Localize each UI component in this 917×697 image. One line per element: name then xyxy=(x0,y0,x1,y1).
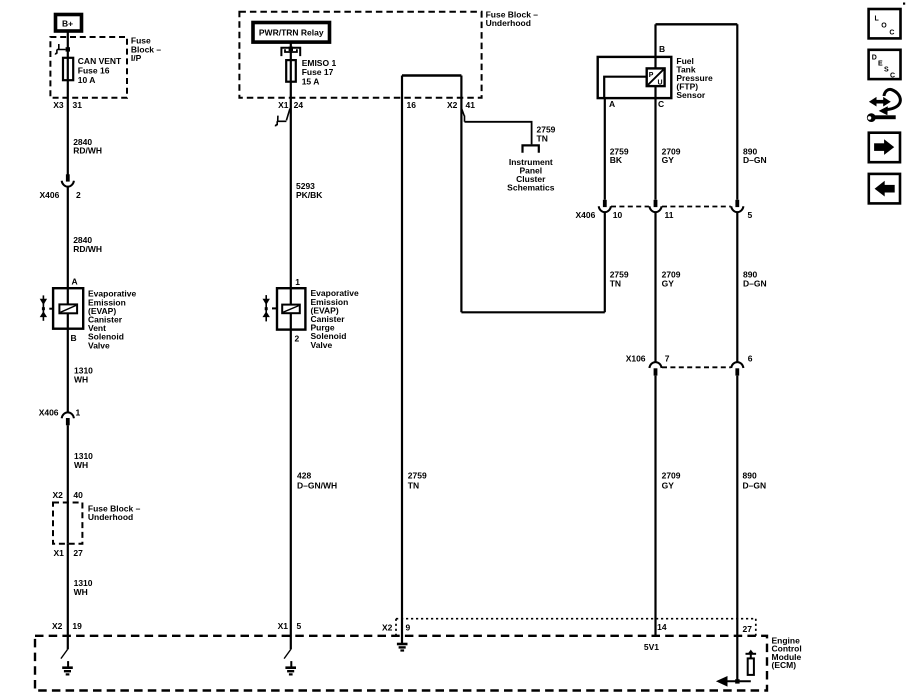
wire label 890 D-GN (lower) xyxy=(743,470,767,490)
svg-text:WH: WH xyxy=(74,374,88,384)
wire X2-41 vertical down xyxy=(460,76,462,313)
label X2 19 (ECM pin) xyxy=(52,621,82,631)
svg-text:27: 27 xyxy=(743,624,753,634)
label X406 10 11 5 xyxy=(576,210,753,220)
fuse F16 CAN VENT xyxy=(63,58,73,80)
svg-text:15 A: 15 A xyxy=(302,77,320,87)
svg-text:A: A xyxy=(72,276,78,286)
label EVAP canister vent solenoid valve xyxy=(88,289,136,351)
wire 2759 TN X406-10 down to corner xyxy=(604,213,606,312)
pigtail curl at X1-24 xyxy=(275,109,290,127)
fuse block underhood small dashed box xyxy=(53,503,82,544)
fuse terminal clip symbol xyxy=(281,47,300,57)
svg-text:16: 16 xyxy=(407,100,417,110)
wire 890 D-GN down to X406-5 xyxy=(736,24,738,200)
B+ terminal box xyxy=(56,15,82,32)
svg-text:9: 9 xyxy=(406,623,411,633)
svg-text:2759: 2759 xyxy=(408,470,427,480)
wire label 1310 WH (middle) xyxy=(74,451,93,470)
FTP internal wire pin A to transducer xyxy=(604,77,647,98)
internal switch blade ECM pin 19 xyxy=(61,649,68,658)
svg-text:E: E xyxy=(878,61,883,68)
svg-text:C: C xyxy=(889,29,894,36)
svg-text:7: 7 xyxy=(665,354,670,364)
valve flow arrows (purge valve) xyxy=(263,295,270,321)
label X1 5 (ECM pin) xyxy=(278,621,302,631)
svg-text:GY: GY xyxy=(662,155,675,165)
svg-text:GY: GY xyxy=(662,278,675,288)
svg-text:B+: B+ xyxy=(62,18,73,28)
pigtail curl at X2-41 branch xyxy=(462,109,465,122)
wire label 2840 RD/WH (lower) xyxy=(73,235,102,254)
wire label 5293 PK/BK xyxy=(296,181,323,200)
wire label 2759 BK xyxy=(610,146,629,165)
DESC button xyxy=(869,50,901,80)
fuse block I/P dashed box xyxy=(50,37,127,98)
label X2 40 xyxy=(53,490,84,500)
diagnostic reroute icon (arrows and wrench) xyxy=(867,89,900,122)
svg-text:WH: WH xyxy=(74,587,88,597)
LOC button xyxy=(869,9,901,38)
stub valve box to arrows xyxy=(49,308,53,310)
label engine control module ECM xyxy=(772,636,802,671)
wire bottom horizontal to 2759 riser xyxy=(461,311,604,313)
svg-text:B: B xyxy=(71,333,77,343)
svg-text:I/P: I/P xyxy=(131,53,142,63)
wire label 1310 WH (lower) xyxy=(74,578,93,597)
svg-text:PWR/TRN Relay: PWR/TRN Relay xyxy=(259,28,324,38)
inline connector X406 pin 5 xyxy=(731,200,743,212)
wire branch to instrument cluster xyxy=(465,122,532,145)
svg-text:X2: X2 xyxy=(382,623,393,633)
inline connector X406 pin 2 xyxy=(62,174,74,186)
wire 1310 WH X406-1 to fuse block underhood xyxy=(67,425,69,502)
pigtail curl left of junction xyxy=(55,44,65,55)
wire fuse 17 down to purge valve xyxy=(290,82,292,289)
svg-text:PK/BK: PK/BK xyxy=(296,190,323,200)
svg-text:10: 10 xyxy=(613,210,623,220)
pull-up resistor inside ECM xyxy=(746,650,757,675)
svg-text:11: 11 xyxy=(665,210,674,220)
junction dot at B+ feed xyxy=(66,47,70,51)
svg-text:P: P xyxy=(649,72,654,79)
svg-text:890: 890 xyxy=(743,470,757,480)
svg-text:2709: 2709 xyxy=(662,470,681,480)
svg-text:428: 428 xyxy=(297,470,311,480)
inline connector X406 pin 10 xyxy=(599,200,611,212)
FTP internal wire pin C xyxy=(654,86,656,98)
5V reference dotted bus box xyxy=(396,619,756,636)
wire label 2840 RD/WH (upper) xyxy=(73,137,102,156)
svg-text:X2: X2 xyxy=(52,621,63,631)
svg-text:B: B xyxy=(659,44,665,54)
svg-text:WH: WH xyxy=(74,460,88,470)
svg-text:A: A xyxy=(609,99,615,109)
svg-text:O: O xyxy=(881,23,887,30)
svg-text:U: U xyxy=(658,79,663,86)
wire 1310 WH valve to X406-1 xyxy=(67,329,69,413)
svg-text:1: 1 xyxy=(76,408,81,418)
signal arrowhead (left) xyxy=(716,676,728,687)
wire 1310 WH to ECM X2-19 xyxy=(67,544,69,650)
EVAP canister purge solenoid valve box xyxy=(277,288,305,329)
svg-text:Valve: Valve xyxy=(311,340,333,350)
svg-text:CAN VENT: CAN VENT xyxy=(78,56,122,66)
label X2 9 (ECM pin) xyxy=(382,623,411,633)
svg-text:14: 14 xyxy=(657,622,667,632)
svg-text:TN: TN xyxy=(537,134,548,144)
label X2 41 xyxy=(447,100,475,110)
FTP sensor transducer square xyxy=(647,68,665,86)
svg-text:RD/WH: RD/WH xyxy=(73,244,102,254)
wire 428 D-GN/WH to ECM X1-5 xyxy=(290,330,292,650)
svg-text:X2: X2 xyxy=(447,100,458,110)
wire pin 16 vertical (2759 TN to ECM X2-9) xyxy=(401,76,403,645)
svg-text:C: C xyxy=(890,73,895,80)
svg-text:Underhood: Underhood xyxy=(88,512,133,522)
svg-text:X3: X3 xyxy=(53,100,64,110)
label X406 2 xyxy=(40,190,82,200)
svg-text:41: 41 xyxy=(466,100,476,110)
wire relay to terminal xyxy=(290,42,292,60)
inline connector X406 pin 11 xyxy=(649,200,661,212)
svg-text:D–GN/WH: D–GN/WH xyxy=(297,481,337,491)
wire FTP pin B xyxy=(654,24,656,68)
svg-text:X2: X2 xyxy=(53,490,64,500)
svg-text:40: 40 xyxy=(73,490,83,500)
label fuel tank pressure sensor xyxy=(676,56,713,100)
label fuse block underhood (top) xyxy=(486,9,539,28)
wire through small fuse block box xyxy=(67,503,69,544)
wire label 2759 TN (below X406) xyxy=(610,270,629,289)
back arrow button xyxy=(869,174,900,204)
inline connector X106 pin 6 xyxy=(731,362,743,376)
EVAP canister vent solenoid valve box xyxy=(53,288,83,329)
wire 2759 BK pin A down to X406-10 xyxy=(604,98,606,200)
label EMISO 1 Fuse 17 15 A xyxy=(302,58,337,87)
wire 2709 GY pin C down to X406-11 xyxy=(654,98,656,200)
ground inside ECM (pin 5) xyxy=(285,661,296,674)
wire label 2709 GY (below X406) xyxy=(662,270,681,289)
label fuse block underhood (small) xyxy=(88,504,141,523)
dashed harness line X406 row xyxy=(611,206,731,208)
svg-text:Valve: Valve xyxy=(88,340,110,350)
label EVAP canister purge solenoid valve xyxy=(311,288,359,350)
wire 2840 RD/WH (lower) xyxy=(67,188,69,289)
wire loop top horizontal (5V feed) xyxy=(656,23,738,25)
solenoid coil symbol (vent valve) xyxy=(59,304,77,313)
svg-text:GY: GY xyxy=(662,481,675,491)
fuse block I/P label xyxy=(131,36,162,63)
svg-text:31: 31 xyxy=(73,100,83,110)
svg-text:D–GN: D–GN xyxy=(743,278,767,288)
label X1 27 xyxy=(54,548,84,558)
FTP sensor box xyxy=(598,57,672,98)
wire label 1310 WH (upper) xyxy=(74,366,93,385)
svg-text:5V1: 5V1 xyxy=(644,642,659,652)
svg-text:27: 27 xyxy=(73,548,83,558)
svg-text:S: S xyxy=(884,67,889,74)
wire 890 D-GN X106-6 down to ECM pin 27 xyxy=(736,376,738,682)
wire label 890 D-GN (upper) xyxy=(743,146,767,165)
inline connector X106 pin 7 xyxy=(649,362,661,376)
svg-text:6: 6 xyxy=(748,354,753,364)
svg-text:X406: X406 xyxy=(39,408,59,418)
speck near top right xyxy=(903,3,905,5)
svg-text:2: 2 xyxy=(76,190,81,200)
dashed harness line X106 row xyxy=(662,366,731,368)
label X406 1 xyxy=(39,408,81,418)
svg-text:C: C xyxy=(658,99,664,109)
wire label 2709 GY (upper) xyxy=(662,146,681,165)
svg-text:Sensor: Sensor xyxy=(676,90,706,100)
ECM internal junction pin 27 xyxy=(735,679,739,683)
svg-text:1: 1 xyxy=(295,277,300,287)
svg-text:5: 5 xyxy=(748,210,753,220)
fuse F17 EMISO 1 xyxy=(286,60,296,82)
wire bus top horizontal (inside fuse block) xyxy=(402,74,461,76)
svg-text:5: 5 xyxy=(297,621,302,631)
svg-text:24: 24 xyxy=(294,100,304,110)
wire label 2759 TN (IPC branch) xyxy=(537,125,556,144)
svg-text:X406: X406 xyxy=(40,190,60,200)
label X1 24 xyxy=(278,100,303,110)
stub purge valve box to arrows xyxy=(272,307,277,309)
svg-text:X1: X1 xyxy=(278,100,289,110)
svg-text:L: L xyxy=(875,16,880,23)
label CAN VENT Fuse 16 10 A xyxy=(78,56,122,85)
svg-text:BK: BK xyxy=(610,155,623,165)
internal switch blade ECM pin 5 xyxy=(284,649,291,658)
wire 890 D-GN X406-5 down to X106-6 xyxy=(736,213,738,362)
ECM internal wire to signal arrow xyxy=(726,680,751,682)
svg-text:Underhood: Underhood xyxy=(486,18,531,28)
off-page stub to instrument panel cluster xyxy=(523,145,539,152)
wire B+ to fuse F16 xyxy=(67,32,69,59)
svg-text:X106: X106 xyxy=(626,354,646,364)
svg-text:RD/WH: RD/WH xyxy=(73,145,102,155)
wire label 2709 GY (lower) xyxy=(662,470,681,490)
wire 2709 GY X106-7 down to ECM pin 14 xyxy=(654,376,656,636)
label instrument panel cluster schematics xyxy=(507,157,555,193)
connector pin labels X3 31 xyxy=(53,100,82,110)
svg-text:Schematics: Schematics xyxy=(507,183,555,193)
svg-text:TN: TN xyxy=(610,278,621,288)
PWR/TRN relay box xyxy=(253,23,330,43)
solenoid coil symbol (purge valve) xyxy=(282,305,300,314)
svg-text:X1: X1 xyxy=(54,548,65,558)
wire 2709 GY X406-11 down to X106-7 xyxy=(654,213,656,362)
svg-text:X406: X406 xyxy=(576,210,596,220)
svg-text:2: 2 xyxy=(295,334,300,344)
svg-text:D: D xyxy=(872,55,877,62)
wire label 890 D-GN (below X406) xyxy=(743,270,767,289)
ground inside ECM (pin 9) xyxy=(397,644,408,651)
forward arrow button xyxy=(869,133,900,163)
svg-text:D–GN: D–GN xyxy=(743,481,767,491)
svg-text:(ECM): (ECM) xyxy=(772,660,797,670)
svg-text:10 A: 10 A xyxy=(78,75,96,85)
ECM dashed box xyxy=(35,636,767,691)
svg-text:Fuse 16: Fuse 16 xyxy=(78,65,110,75)
svg-text:X1: X1 xyxy=(278,621,289,631)
svg-text:D–GN: D–GN xyxy=(743,155,767,165)
ground inside ECM (pin 19) xyxy=(62,661,73,674)
wire fuse to X3-31 pin xyxy=(67,80,69,175)
valve flow arrows (vent valve) xyxy=(40,295,47,320)
inline connector X406 pin 1 xyxy=(62,412,74,425)
wire label 2759 TN (pin 16 riser) xyxy=(408,470,427,490)
fuse block underhood dashed box (top middle) xyxy=(239,12,481,98)
label X106 7 6 xyxy=(626,354,753,364)
svg-text:TN: TN xyxy=(408,481,419,491)
svg-text:19: 19 xyxy=(72,621,82,631)
wire label 428 D-GN/WH xyxy=(297,470,337,490)
